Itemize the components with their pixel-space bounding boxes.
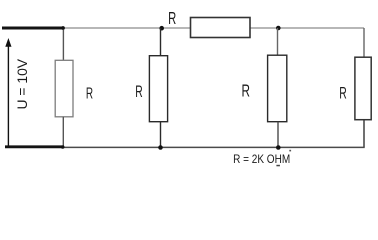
resistor R1 (vertical box) bbox=[55, 60, 73, 117]
wire bottom-left thick segment bbox=[5, 145, 62, 148]
voltage source arrow (points up) bbox=[5, 38, 11, 146]
svg-text:U = 10V: U = 10V bbox=[14, 58, 30, 109]
resistor R3 (vertical box) bbox=[268, 55, 287, 122]
wire from resistor R2 down to bottom rail bbox=[160, 122, 162, 148]
wire from node A down to resistor R1 bbox=[62, 30, 64, 61]
wire top rail thin (resistor R-series right side to right corner) bbox=[250, 27, 364, 29]
resistor R series (horizontal box) bbox=[191, 18, 251, 38]
stray mark above OHM bbox=[289, 150, 291, 152]
svg-text:R: R bbox=[135, 82, 142, 101]
junction dot bottom of R1 bbox=[61, 145, 65, 149]
stray mark below OHM bbox=[276, 165, 280, 167]
node C junction dot (278,28) bbox=[276, 26, 281, 31]
wire right rail down to resistor R4 bbox=[363, 28, 365, 58]
svg-text:R: R bbox=[168, 10, 176, 29]
wire from node C down to resistor R3 bbox=[277, 28, 279, 55]
junction dot bottom of R2 bbox=[158, 145, 163, 150]
resistor R2 (vertical box) bbox=[149, 56, 167, 122]
node A junction dot (63,28) bbox=[61, 26, 65, 30]
wire top rail thin (node A to node B) bbox=[63, 27, 191, 29]
wire from resistor R1 down to bottom rail bbox=[62, 117, 64, 147]
wire bottom rail thin bbox=[62, 146, 365, 148]
svg-text:R: R bbox=[86, 84, 93, 102]
wire from node B down to resistor R2 bbox=[160, 28, 162, 56]
resistor R4 (vertical box) bbox=[355, 57, 371, 119]
svg-text:R = 2K OHM: R = 2K OHM bbox=[233, 153, 290, 166]
node B junction dot (162,28) bbox=[159, 26, 164, 31]
junction dot bottom of R3 bbox=[276, 145, 281, 150]
wire from resistor R3 down to bottom rail bbox=[277, 122, 279, 148]
svg-text:R: R bbox=[339, 83, 346, 102]
wire from resistor R4 down to bottom-right corner bbox=[363, 120, 365, 148]
wire top-left thick segment bbox=[2, 27, 63, 30]
svg-text:R: R bbox=[242, 82, 250, 101]
